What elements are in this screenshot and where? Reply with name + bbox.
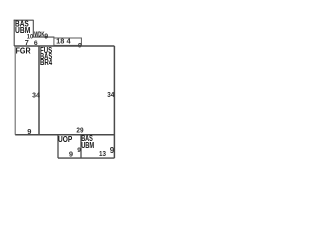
svg-text:18 4: 18 4 — [56, 36, 70, 45]
main bottom wall — [15, 134, 114, 136]
bottom boxes bottom wall — [58, 157, 114, 159]
svg-text:UOP: UOP — [58, 135, 72, 144]
svg-text:9: 9 — [27, 127, 31, 136]
top-left BAS/UBM box: right wall (stops at WDK line) — [32, 20, 34, 38]
divider wall UOP/BAS — [80, 135, 82, 158]
FGR left wall — [14, 46, 16, 135]
UOP left wall — [57, 135, 59, 158]
svg-text:9: 9 — [110, 146, 115, 155]
svg-text:9: 9 — [44, 34, 48, 41]
svg-text:34: 34 — [107, 90, 115, 99]
18 4 dimension label box — [54, 38, 82, 45]
svg-text:BR4: BR4 — [40, 58, 53, 67]
svg-text:UBM: UBM — [81, 141, 94, 150]
svg-text:WDK: WDK — [34, 32, 44, 39]
WDK top wire — [33, 36, 54, 38]
top-left BAS/UBM box: left wall — [13, 20, 15, 46]
svg-text:34: 34 — [32, 90, 40, 99]
top-left BAS/UBM box: top wall — [14, 19, 34, 21]
main top wall — [14, 45, 114, 47]
svg-text:FGR: FGR — [16, 47, 31, 56]
svg-text:9: 9 — [69, 149, 73, 158]
main left wall — [38, 46, 40, 135]
svg-text:9: 9 — [77, 147, 81, 154]
main right wall — [113, 46, 115, 158]
svg-text:13: 13 — [99, 149, 106, 158]
